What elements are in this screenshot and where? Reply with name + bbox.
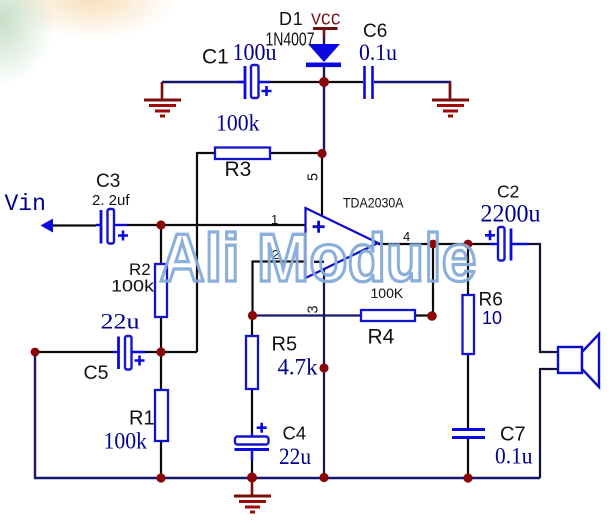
wire top rail ground to C1 bbox=[162, 81, 244, 83]
node dot R1 bottom bbox=[156, 473, 165, 482]
wire C2 right to speaker top bbox=[528, 244, 558, 352]
node dot pin3 line bbox=[319, 363, 328, 372]
wire R6 top stub bbox=[467, 244, 469, 295]
wire R3 right to pin5 rail bbox=[270, 152, 322, 154]
node dot main rail bbox=[319, 77, 329, 87]
svg-text:22u: 22u bbox=[101, 309, 140, 334]
resistor R5 bbox=[246, 336, 258, 389]
wire VCC to diode bbox=[323, 36, 325, 45]
svg-text:C3: C3 bbox=[96, 171, 120, 192]
svg-text:100k: 100k bbox=[111, 277, 155, 296]
svg-text:R1: R1 bbox=[129, 407, 155, 429]
wire C6 to right ground bbox=[374, 82, 450, 98]
node dot R3 right bbox=[317, 149, 326, 158]
wire left rail down and bottom rail bbox=[35, 352, 540, 478]
wire R4 right to branch bbox=[415, 314, 432, 316]
svg-text:TDA2030A: TDA2030A bbox=[343, 195, 404, 211]
wire C7 bottom to rail bbox=[467, 439, 469, 478]
svg-text:0.1u: 0.1u bbox=[495, 444, 533, 470]
wire C4 bottom to rail bbox=[251, 450, 253, 478]
node dot C pin2 bbox=[248, 311, 257, 320]
capacitor C3 bbox=[96, 209, 128, 244]
wire node A down to R2 bbox=[160, 225, 162, 264]
wire C1 to junction bbox=[258, 81, 324, 83]
svg-text:2200u: 2200u bbox=[481, 200, 541, 227]
wire node C to R5 bbox=[251, 315, 253, 336]
resistor R2 bbox=[155, 264, 167, 317]
resistor R6 bbox=[463, 295, 475, 354]
wire junction to C6 bbox=[324, 81, 363, 83]
ground G2 top right bbox=[432, 82, 469, 116]
capacitor C7 bbox=[452, 430, 485, 438]
diode D1 bbox=[306, 44, 341, 67]
svg-text:10: 10 bbox=[482, 308, 502, 328]
svg-text:100k: 100k bbox=[104, 429, 148, 454]
capacitor C2 bbox=[485, 227, 528, 261]
svg-text:3: 3 bbox=[305, 305, 321, 313]
svg-text:C4: C4 bbox=[283, 422, 307, 443]
svg-text:R3: R3 bbox=[225, 158, 252, 181]
svg-text:0.1u: 0.1u bbox=[359, 40, 397, 65]
svg-text:Vin: Vin bbox=[5, 191, 46, 217]
wire R2 bottom to node B bbox=[160, 317, 162, 352]
node dot A input bbox=[156, 220, 165, 229]
VCC power bar bbox=[313, 27, 338, 30]
wire R3 left to vertical feedback rail bbox=[197, 153, 215, 352]
node dot B bbox=[156, 347, 165, 356]
wire Vin to C3 bbox=[52, 224, 96, 226]
capacitor C4 bbox=[235, 423, 270, 461]
svg-text:C1: C1 bbox=[202, 46, 229, 69]
svg-text:22u: 22u bbox=[279, 444, 311, 469]
wire R1 bottom to rail bbox=[160, 441, 162, 478]
wire node B to R1 bbox=[160, 352, 162, 390]
wire pin3 down to rail bbox=[323, 268, 325, 478]
wire diode to rail junction and down to R3 junction bbox=[323, 66, 325, 154]
wire speaker bottom to rail bbox=[540, 369, 558, 478]
svg-text:4.7k: 4.7k bbox=[278, 354, 318, 380]
wire output pin4 bbox=[378, 243, 494, 245]
ground G1 top left bbox=[144, 82, 181, 116]
wire R5 bottom to C4 bbox=[251, 389, 253, 437]
svg-text:R5: R5 bbox=[272, 333, 298, 355]
resistor R4 bbox=[361, 310, 415, 321]
node dot ground bottom bbox=[247, 473, 257, 483]
wire R6 bottom to C7 bbox=[467, 354, 469, 428]
svg-text:100u: 100u bbox=[233, 40, 277, 66]
svg-text:C7: C7 bbox=[500, 423, 526, 445]
svg-text:100k: 100k bbox=[216, 110, 260, 136]
wire pin2 to node C bbox=[253, 262, 307, 316]
node dot R6 top bbox=[464, 240, 473, 249]
capacitor C6 bbox=[365, 66, 373, 99]
op-amp U1 TDA2030A bbox=[306, 208, 379, 278]
wire node C to R4 bbox=[253, 314, 362, 316]
svg-text:2. 2uf: 2. 2uf bbox=[92, 192, 130, 209]
resistor R1 bbox=[155, 390, 168, 441]
node dot output branch bbox=[429, 240, 438, 249]
node dot C7 bottom bbox=[463, 473, 472, 482]
svg-text:5: 5 bbox=[305, 173, 321, 181]
wire C5 row bbox=[35, 351, 197, 353]
wire C3 to node A to pin1 bbox=[127, 224, 306, 226]
node dot pin3 bottom bbox=[319, 473, 328, 482]
speaker LS1 bbox=[558, 334, 599, 387]
svg-text:C5: C5 bbox=[84, 362, 109, 384]
ground G3 bottom center bbox=[234, 478, 271, 512]
wire pin5 bbox=[321, 154, 323, 215]
capacitor C1 bbox=[238, 65, 272, 99]
svg-text:C2: C2 bbox=[497, 182, 519, 202]
node dot C5 left bbox=[31, 348, 40, 357]
wire output branch to R4 bbox=[432, 244, 434, 316]
svg-text:VCC: VCC bbox=[311, 11, 341, 30]
svg-text:D1: D1 bbox=[279, 9, 304, 29]
capacitor C5 bbox=[113, 336, 145, 370]
svg-text:R4: R4 bbox=[368, 326, 395, 349]
Vin arrow bbox=[41, 219, 54, 233]
resistor R3 bbox=[215, 148, 270, 160]
svg-text:Ali Module: Ali Module bbox=[160, 220, 477, 296]
node dot R4 right bbox=[427, 311, 437, 321]
